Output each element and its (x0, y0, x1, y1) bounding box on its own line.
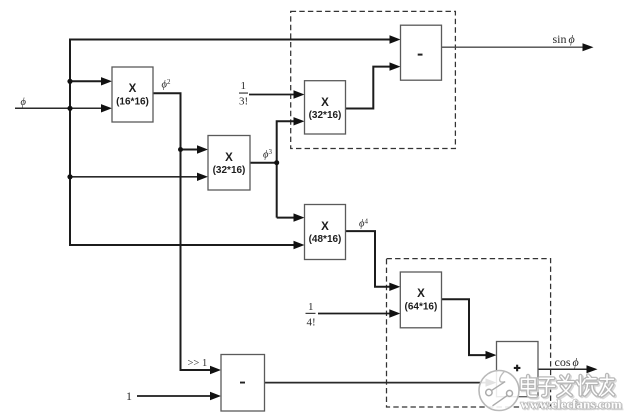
svg-text:(16*16): (16*16) (116, 97, 149, 108)
svg-text:3!: 3! (239, 96, 248, 108)
svg-text:(64*16): (64*16) (404, 302, 437, 313)
svg-text:www.elecfans.com: www.elecfans.com (521, 396, 622, 411)
svg-text:X: X (321, 97, 329, 109)
svg-text:X: X (225, 152, 233, 164)
svg-text:(32*16): (32*16) (213, 165, 246, 176)
svg-text:4!: 4! (307, 316, 316, 328)
svg-text:X: X (129, 83, 137, 95)
svg-text:>> 1: >> 1 (188, 358, 208, 369)
svg-text:sinϕ: sinϕ (553, 32, 575, 46)
svg-text:ϕ: ϕ (21, 97, 27, 108)
svg-text:X: X (321, 221, 329, 233)
svg-text:1: 1 (241, 80, 247, 92)
svg-text:cosϕ: cosϕ (555, 355, 579, 369)
svg-text:X: X (417, 288, 425, 300)
svg-text:(32*16): (32*16) (309, 110, 342, 121)
svg-text:1: 1 (308, 301, 314, 313)
svg-text:1: 1 (126, 389, 132, 403)
svg-text:(48*16): (48*16) (309, 234, 342, 245)
